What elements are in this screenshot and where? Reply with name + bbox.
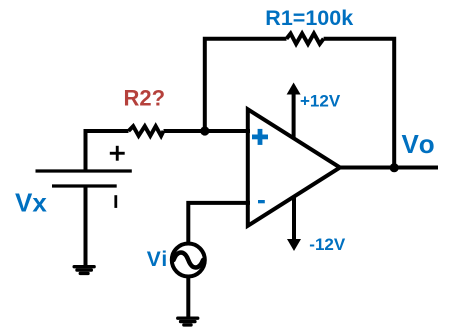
wire: inverting input to Vi source: [188, 203, 250, 243]
power -12V arrow: [287, 196, 301, 252]
ground (Vi): [176, 317, 199, 327]
op-amp noninverting input + label: [252, 129, 268, 145]
wire: input left segment with corner to battery: [86, 131, 129, 171]
svg-text:-12V: -12V: [309, 235, 346, 254]
wire: top-right segment + feedback right vertical: [324, 39, 395, 168]
source Vi circle: [172, 244, 205, 277]
svg-text:R1=100k: R1=100k: [265, 6, 353, 30]
wire: Vi source to ground: [186, 277, 190, 318]
svg-text:Vo: Vo: [402, 129, 437, 159]
battery plus label: [110, 146, 125, 161]
junction: feedback to input node: [200, 126, 209, 135]
op-amp inverting input - label: [258, 200, 265, 203]
resistor R1: [287, 34, 324, 44]
ground (Vx): [73, 265, 96, 275]
svg-text:R2?: R2?: [124, 86, 166, 111]
wire: battery to ground: [84, 186, 88, 266]
svg-text:Vx: Vx: [15, 187, 47, 217]
svg-text:Vi: Vi: [147, 248, 168, 271]
battery minus label: [114, 195, 117, 208]
wire: input right segment to op-amp: [164, 129, 251, 133]
source Vi sine wave: [174, 253, 204, 268]
junction: output node: [390, 163, 399, 172]
battery Vx bottom plate: [52, 184, 117, 187]
battery Vx top plate: [36, 169, 132, 172]
op-amp U1: [248, 109, 340, 226]
wire: feedback left vertical + top-left segment: [205, 39, 287, 133]
svg-text:+12V: +12V: [300, 91, 341, 110]
power +12V arrow: [287, 83, 301, 138]
resistor R2: [129, 126, 164, 136]
wire: output: [340, 166, 438, 170]
